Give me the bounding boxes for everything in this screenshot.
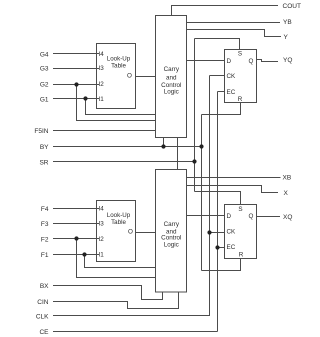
wire G4 — [53, 53, 99, 55]
wire G3 — [53, 68, 99, 70]
svg-text:D: D — [227, 58, 232, 65]
svg-text:SR: SR — [39, 159, 48, 166]
look-up table U1 (G LUT) — [97, 44, 136, 109]
wire carry chain between carry logic blocks — [177, 138, 179, 170]
wire SR rail — [194, 39, 196, 192]
svg-text:S: S — [238, 206, 242, 213]
svg-text:S: S — [238, 50, 242, 57]
wire CLK — [53, 315, 210, 317]
junction F2 — [74, 236, 78, 240]
junction BY to R rail — [199, 144, 203, 148]
wire CE rail — [217, 92, 219, 332]
svg-text:F1: F1 — [41, 252, 49, 259]
wire F2 — [53, 238, 99, 240]
wire XQ — [257, 216, 281, 218]
wire S lower (to FF2 S pin) — [195, 192, 241, 205]
svg-text:CIN: CIN — [37, 299, 49, 306]
svg-text:Y: Y — [284, 34, 289, 41]
svg-text:I3: I3 — [99, 65, 105, 72]
wire COUT — [172, 6, 279, 16]
wire R lower (FF2 R pin) — [202, 259, 241, 271]
svg-text:BX: BX — [40, 283, 49, 290]
svg-text:R: R — [239, 252, 244, 259]
svg-text:F2: F2 — [41, 236, 49, 243]
junction CE to EC lower — [215, 245, 219, 249]
svg-text:EC: EC — [227, 244, 236, 251]
svg-text:Q: Q — [249, 213, 254, 220]
junction G2 — [74, 82, 78, 86]
svg-text:Table: Table — [111, 63, 126, 70]
wire F1 branch to carry logic — [85, 255, 156, 268]
wire SR — [53, 161, 195, 163]
wire LUT1 output O to carry logic — [136, 76, 156, 78]
wire CK upper — [210, 75, 225, 77]
wire D upper (carry logic to FF) — [187, 60, 225, 62]
svg-text:Logic: Logic — [164, 241, 179, 248]
wire F3 — [53, 223, 99, 225]
svg-text:CK: CK — [227, 229, 237, 236]
svg-text:R: R — [238, 96, 243, 103]
wire F1 — [53, 254, 99, 256]
wire YB — [187, 22, 281, 24]
wire G1 — [53, 98, 99, 100]
svg-text:XQ: XQ — [283, 214, 292, 221]
wire CE — [53, 331, 218, 333]
wire LUT2 output O to carry logic — [136, 232, 156, 234]
wire BX — [53, 286, 163, 300]
svg-text:CE: CE — [39, 329, 49, 336]
wire CIN — [53, 292, 179, 309]
wire CK lower — [210, 232, 225, 234]
svg-text:O: O — [127, 73, 132, 80]
wire YQ — [257, 60, 279, 62]
svg-text:I1: I1 — [99, 252, 105, 259]
svg-text:G3: G3 — [40, 65, 49, 72]
junction SR to S rail — [192, 159, 196, 163]
wire R upper (FF1 R pin) — [202, 103, 241, 115]
wire EC lower — [218, 247, 225, 249]
wire G1 branch to carry logic — [86, 99, 156, 115]
junction G1 — [83, 96, 87, 100]
svg-text:I1: I1 — [99, 96, 105, 103]
svg-text:CLK: CLK — [36, 313, 49, 320]
svg-text:CK: CK — [227, 73, 237, 80]
svg-text:Table: Table — [111, 219, 126, 226]
svg-text:I4: I4 — [99, 206, 105, 213]
svg-text:YB: YB — [283, 19, 292, 26]
svg-text:I2: I2 — [99, 236, 105, 243]
flip-flop U6 (X register) — [225, 205, 257, 259]
svg-text:BY: BY — [40, 144, 49, 151]
wire G2 — [53, 84, 99, 86]
junction F1 — [82, 252, 86, 256]
svg-text:XB: XB — [283, 175, 292, 182]
flip-flop U3 (Y register) — [225, 50, 257, 103]
svg-text:D: D — [227, 213, 232, 220]
svg-text:I4: I4 — [99, 51, 105, 58]
svg-text:F3: F3 — [41, 221, 49, 228]
svg-text:X: X — [284, 190, 289, 197]
wire F2 branch to carry logic — [77, 239, 156, 278]
wire F4 — [53, 208, 99, 210]
wire S upper (to FF1 S pin) — [195, 39, 240, 50]
svg-text:F5IN: F5IN — [34, 128, 48, 135]
svg-text:G4: G4 — [40, 51, 49, 58]
svg-text:I3: I3 — [99, 221, 105, 228]
svg-text:Carry: Carry — [164, 221, 180, 228]
junction CLK to CK lower — [207, 230, 211, 234]
wire BY branch into carry logic bottom — [163, 138, 165, 147]
svg-text:Look-Up: Look-Up — [107, 212, 131, 219]
wire Y — [187, 30, 282, 37]
carry and control logic U5 (lower) — [156, 170, 187, 293]
wire G2 branch to carry logic — [77, 85, 156, 121]
wire XB — [187, 177, 281, 179]
svg-text:F4: F4 — [41, 206, 49, 213]
svg-text:and: and — [166, 74, 177, 81]
wire F5IN — [53, 130, 156, 132]
svg-text:I2: I2 — [99, 81, 105, 88]
svg-text:EC: EC — [227, 89, 236, 96]
wire BY rail — [201, 115, 203, 271]
wire X — [187, 186, 279, 193]
svg-text:YQ: YQ — [283, 57, 292, 64]
wire BY — [53, 146, 202, 148]
svg-text:Logic: Logic — [164, 89, 179, 96]
svg-text:G2: G2 — [40, 81, 49, 88]
svg-text:Look-Up: Look-Up — [107, 56, 131, 63]
svg-text:Carry: Carry — [164, 66, 180, 73]
wire CLK rail — [209, 76, 211, 317]
carry and control logic U2 (upper) — [156, 16, 187, 138]
svg-text:G1: G1 — [40, 96, 49, 103]
svg-text:Q: Q — [249, 58, 254, 65]
junction BY to carry logic — [161, 144, 165, 148]
wire D lower (carry logic to FF) — [187, 215, 225, 217]
svg-text:O: O — [128, 229, 133, 236]
look-up table U4 (F LUT) — [97, 201, 136, 262]
svg-text:COUT: COUT — [283, 3, 301, 10]
wire EC upper — [218, 91, 225, 93]
